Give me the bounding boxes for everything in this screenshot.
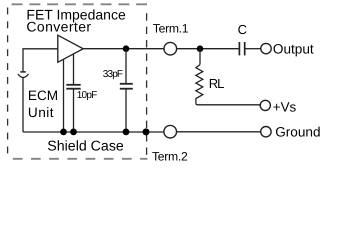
wire (33pF bottom plate to bus): [125, 89, 127, 132]
svg-text:Converter: Converter: [26, 18, 91, 34]
terminal Output: [261, 43, 271, 53]
op-amp U1: FET impedance converter buffer triangle: [58, 35, 83, 62]
ECM capsule (curved diaphragm electrode): [18, 74, 29, 78]
svg-text:Unit: Unit: [28, 105, 54, 120]
node (junction dot: triangle line on bus): [60, 129, 67, 136]
svg-text:Term.2: Term.2: [152, 149, 188, 163]
node (junction dot: 33pF on bus): [123, 129, 130, 136]
capacitor 10pF: [66, 85, 80, 89]
node (junction dot: shield case tie to bus): [143, 128, 150, 135]
svg-text:RL: RL: [209, 76, 224, 91]
node (junction dot: RL tap): [197, 45, 204, 52]
resistor RL: [196, 65, 203, 104]
svg-text:+Vs: +Vs: [273, 100, 297, 115]
shield case dashed border (top): [12, 3, 147, 5]
terminal +Vs: [260, 100, 270, 110]
node (junction dot: 10pF on bus): [70, 129, 77, 136]
ECM capsule (fixed plate bar): [20, 71, 26, 73]
terminal Term.2: [164, 125, 177, 138]
svg-text:33pF: 33pF: [103, 69, 123, 80]
wire (Term.1 to coupling capacitor C): [177, 48, 239, 50]
wire (triangle bottom edge to bus, left): [63, 59, 65, 132]
svg-text:Shield Case: Shield Case: [47, 139, 124, 155]
label "ECM Unit": [28, 88, 58, 120]
wire (10pF bottom plate to bus): [73, 89, 75, 132]
wire (junction down to resistor RL): [199, 49, 201, 65]
svg-text:C: C: [238, 22, 247, 37]
wire (FET output: triangle apex to Term.1): [83, 48, 163, 50]
node (junction dot at 33pF tap on output wire): [123, 45, 130, 52]
label "FET Impedance Converter": [26, 6, 126, 34]
shield case dashed border (left): [7, 8, 9, 156]
wire (vertical down from corner to capsule plate): [22, 49, 24, 72]
shield case dashed border (bottom): [13, 158, 148, 160]
wire (resistor bottom corner to +Vs terminal): [196, 103, 260, 105]
wire (Term.2 to Ground terminal): [177, 131, 261, 133]
wire (junction down to 33pF top plate): [125, 49, 127, 83]
svg-text:Ground: Ground: [275, 124, 320, 139]
wire (capacitor C to Output terminal): [246, 48, 261, 50]
svg-text:Term.1: Term.1: [153, 22, 189, 36]
svg-text:Output: Output: [273, 42, 314, 57]
terminal Ground: [261, 127, 271, 137]
terminal Term.1: [164, 42, 177, 55]
wire (input: horizontal from capsule corner to FET triangle): [22, 48, 57, 50]
wire (shield bus: capsule corner to Term.2): [23, 131, 164, 133]
capacitor C: [239, 42, 244, 55]
wire (capsule stem down to shield bus): [22, 78, 24, 132]
shield case dashed border (right): [146, 13, 148, 158]
capacitor 33pF: [120, 84, 133, 89]
wire (triangle bottom edge down to 10pF top plate): [73, 54, 75, 84]
svg-text:10pF: 10pF: [77, 90, 97, 101]
svg-text:ECM: ECM: [28, 88, 58, 103]
